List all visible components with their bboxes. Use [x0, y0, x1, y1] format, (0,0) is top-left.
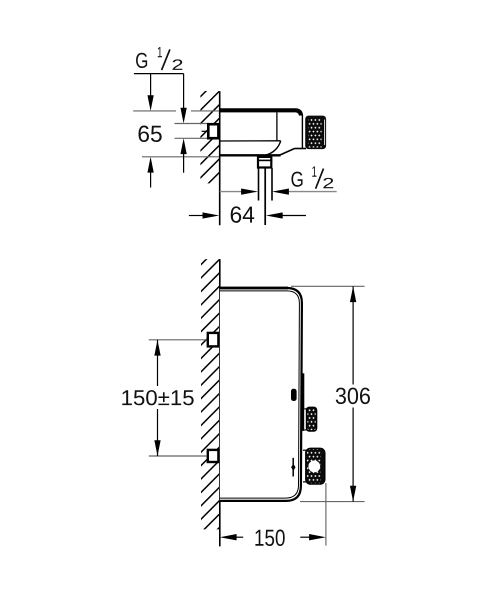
dimension text 306 [336, 388, 370, 405]
outlet fitting divider [257, 159, 272, 161]
dimension text 65 [139, 126, 162, 143]
small arrow marking (side view) [292, 458, 294, 477]
dim 150 bottom: arrows + line [220, 534, 237, 540]
arrowhead right at pipe left [241, 188, 258, 194]
small dash left of fitting [202, 130, 207, 132]
neck bottom line [295, 148, 307, 150]
dim 64: right tail line [282, 215, 306, 217]
label G1/2 top: underline [134, 73, 184, 75]
dimension text 64 [231, 206, 254, 223]
dim 64: left tail line [189, 215, 204, 217]
arrowhead up at fitting bottom [180, 138, 186, 154]
shaft below 65 arrow [150, 170, 152, 188]
arrowhead down at 65 top [147, 95, 153, 111]
dim 306: vertical line + arrows [352, 286, 354, 384]
body end vertical [301, 115, 303, 149]
extension line 65-bottom [142, 156, 219, 158]
label G1/2 lower: numerator 1 [312, 166, 316, 176]
dimension text 150 [255, 530, 284, 547]
knob 1 thermostat (side view) [304, 409, 306, 431]
extension line 65-top [133, 110, 219, 112]
outlet fitting below body [258, 157, 271, 168]
label G1/2 lower: letter G [291, 172, 302, 187]
body outline outer [220, 288, 302, 501]
body inner offset line [220, 291, 300, 498]
label G1/2 lower: fraction slash [316, 169, 324, 189]
leader left segment [220, 191, 243, 193]
shaft below fitting arrow [183, 152, 185, 173]
pipe center line [264, 168, 266, 225]
dim 64: arrowhead right at wall face [203, 212, 220, 218]
label G1/2 lower: denominator 2 [323, 178, 333, 188]
dim 150±15: vertical line + arrows [157, 340, 159, 386]
dim 306: extension lines [291, 285, 365, 287]
label G1/2 top: denominator 2 [173, 59, 183, 69]
pipe outer wall right [271, 168, 273, 201]
label G1/2 top: numerator 1 [158, 47, 162, 57]
label G1/2 lower: leader line [288, 191, 337, 193]
D-shape button (side view) [291, 389, 297, 401]
dim 150 bottom: extension line right [325, 483, 327, 546]
body inner vertical divider [276, 112, 278, 140]
wall face line (side view) [219, 259, 221, 546]
wall hatch (side view) [196, 242, 224, 565]
dimension text 150±15 [122, 390, 193, 405]
extension line fitting-bottom [175, 137, 208, 139]
inner horizontal line y141 [220, 140, 281, 142]
arrowhead left at pipe right [272, 188, 289, 194]
dim 150±15: extension lines [149, 339, 207, 341]
knurled knob (top view) [305, 116, 326, 150]
dim 64: arrowhead left at pipe centre [266, 212, 283, 218]
arrowhead up at 65 bottom [147, 157, 153, 173]
upper wall fitting (side view) [208, 333, 219, 347]
body bottom edge [220, 154, 281, 156]
body top edge thick overlay [220, 287, 288, 290]
label G1/2 top: fraction slash [162, 49, 170, 70]
arrowhead down at fitting top [180, 108, 186, 124]
label G1/2 top: letter G [136, 53, 147, 68]
pipe outer wall left [258, 168, 260, 201]
leader G1/2 shaft [183, 74, 185, 110]
wall hatch (top view) [195, 73, 224, 224]
extension line fitting-top [175, 123, 208, 125]
wall face line (top view) [219, 91, 221, 225]
leader 65 upper shaft [150, 74, 152, 98]
chamfer diagonal [280, 149, 295, 156]
plate band on body edge [301, 373, 304, 431]
lower wall fitting (side view) [208, 450, 219, 462]
wall fitting square (top view) [208, 124, 218, 138]
body top edge thick (top view) [220, 110, 301, 115]
knob 2 volume (side view) [303, 450, 306, 483]
fillet curve [266, 141, 281, 155]
